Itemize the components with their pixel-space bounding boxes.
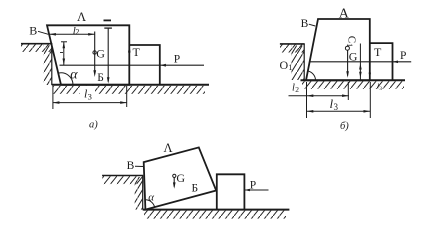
top tick of vertical dim a <box>61 41 67 43</box>
G arrowhead b <box>346 71 349 78</box>
ground upper-left v <box>102 175 143 177</box>
T-bar of line AB a <box>104 27 112 29</box>
hatch left of soil line v <box>135 177 143 210</box>
soil vertical line v <box>142 176 144 210</box>
svg-text:Т: Т <box>374 45 382 59</box>
l2 left arrow a <box>49 33 56 36</box>
l3 right arrow a <box>120 101 127 104</box>
svg-text:1: 1 <box>288 62 292 72</box>
soil vertical line a <box>51 44 53 85</box>
svg-text:Λ: Λ <box>77 10 86 24</box>
G arrowhead v <box>173 182 176 188</box>
G dot v <box>173 174 176 177</box>
G arrowhead a <box>93 70 96 77</box>
svg-text:Т: Т <box>133 45 141 59</box>
alpha arc a <box>58 73 73 85</box>
svg-text:Б: Б <box>192 182 199 194</box>
hatch below base a <box>53 86 205 94</box>
svg-text:α: α <box>148 191 154 203</box>
l3 left extension a <box>52 86 54 109</box>
hatch below upper ground a <box>21 44 52 52</box>
svg-text:В: В <box>301 18 309 30</box>
soil vertical line b <box>303 44 305 80</box>
P arrowhead b <box>393 61 399 64</box>
big block b (wall) <box>306 19 370 80</box>
down arrow vertical dim a <box>63 59 66 66</box>
hatch below upper ground b <box>280 45 304 53</box>
hatch left of soil line a <box>44 45 52 85</box>
hatch below upper ground v <box>102 176 142 184</box>
svg-text:В: В <box>127 160 135 172</box>
svg-text:3: 3 <box>334 102 339 112</box>
l3 right extension a <box>126 86 128 107</box>
dim l3 line b <box>307 110 371 112</box>
vertical line through B point a <box>107 28 109 81</box>
G point circle b <box>345 46 349 50</box>
P arrowhead a <box>160 64 166 67</box>
white gap for l3 label <box>80 86 95 99</box>
G force line a <box>94 32 96 74</box>
l2 left arrow b <box>307 94 314 97</box>
svg-text:3: 3 <box>88 92 92 102</box>
l3 right extension b <box>369 82 371 118</box>
small down arrow at right edge bottom b <box>369 73 371 79</box>
base ground v <box>143 209 290 211</box>
l2 right arrow b <box>342 94 349 97</box>
leader B (v) <box>135 165 144 167</box>
down arrow vertical dim b <box>359 72 362 78</box>
hatch below base b <box>302 81 404 89</box>
angle arc b <box>308 71 316 80</box>
big block a (wall) <box>47 25 129 85</box>
ground upper-left a <box>21 43 52 45</box>
svg-text:2: 2 <box>75 28 79 37</box>
alpha arc v <box>145 200 155 207</box>
vertical dim line b <box>359 44 361 81</box>
P force line b <box>310 61 411 63</box>
small block b <box>370 43 393 80</box>
svg-text:а): а) <box>89 120 98 131</box>
small block v <box>217 174 245 209</box>
small down arrow end of AB line a <box>107 77 110 83</box>
l2 right arrow a <box>88 33 95 36</box>
svg-text:2: 2 <box>295 85 299 94</box>
svg-text:Р: Р <box>400 50 406 62</box>
l3 left arrow a <box>53 101 60 104</box>
base ground a <box>52 84 209 86</box>
P force line a <box>60 64 205 66</box>
svg-text:В: В <box>29 24 37 38</box>
l2 right extension b <box>347 82 349 100</box>
P arrowhead v <box>244 189 250 192</box>
tiny rotated label on vertical dim a <box>60 52 63 54</box>
dim l2 line a <box>49 33 94 35</box>
svg-text:G: G <box>96 47 105 61</box>
G force line v <box>173 178 175 187</box>
dim l2 line b <box>289 95 349 97</box>
svg-text:б): б) <box>340 121 349 132</box>
svg-text:Λ: Λ <box>164 141 173 155</box>
svg-text:G: G <box>176 171 185 185</box>
hatch below base v <box>144 211 286 219</box>
P force line v <box>244 189 268 191</box>
svg-text:Б: Б <box>97 72 104 84</box>
svg-text:С1: С1 <box>345 36 358 47</box>
l3 left arrow b <box>307 110 314 113</box>
small block a <box>129 45 160 85</box>
up arrow vertical dim a <box>63 42 66 49</box>
svg-text:А: А <box>339 7 350 22</box>
dim l3 line a <box>53 102 127 104</box>
l3 right arrow b <box>364 110 371 113</box>
T arrowhead a <box>128 45 131 52</box>
svg-text:О: О <box>280 58 289 72</box>
ground upper-left b <box>280 43 305 45</box>
G point circle a <box>93 51 96 54</box>
svg-text:Р: Р <box>250 179 256 191</box>
svg-text:α: α <box>70 68 78 83</box>
G force line b <box>347 50 349 76</box>
l2/l3 left extension b <box>306 82 308 118</box>
vertical dim near slant a <box>63 42 65 65</box>
base ground b <box>301 79 406 81</box>
svg-text:Р: Р <box>174 54 180 66</box>
minus mark above top edge a <box>104 19 112 21</box>
leader B (a) <box>38 31 48 34</box>
up arrow vertical dim b <box>359 63 362 69</box>
hatch left of soil line b <box>291 46 304 81</box>
tilted block v <box>144 147 217 209</box>
leader B (b) <box>309 24 316 26</box>
svg-text:3: 3 <box>379 86 382 92</box>
